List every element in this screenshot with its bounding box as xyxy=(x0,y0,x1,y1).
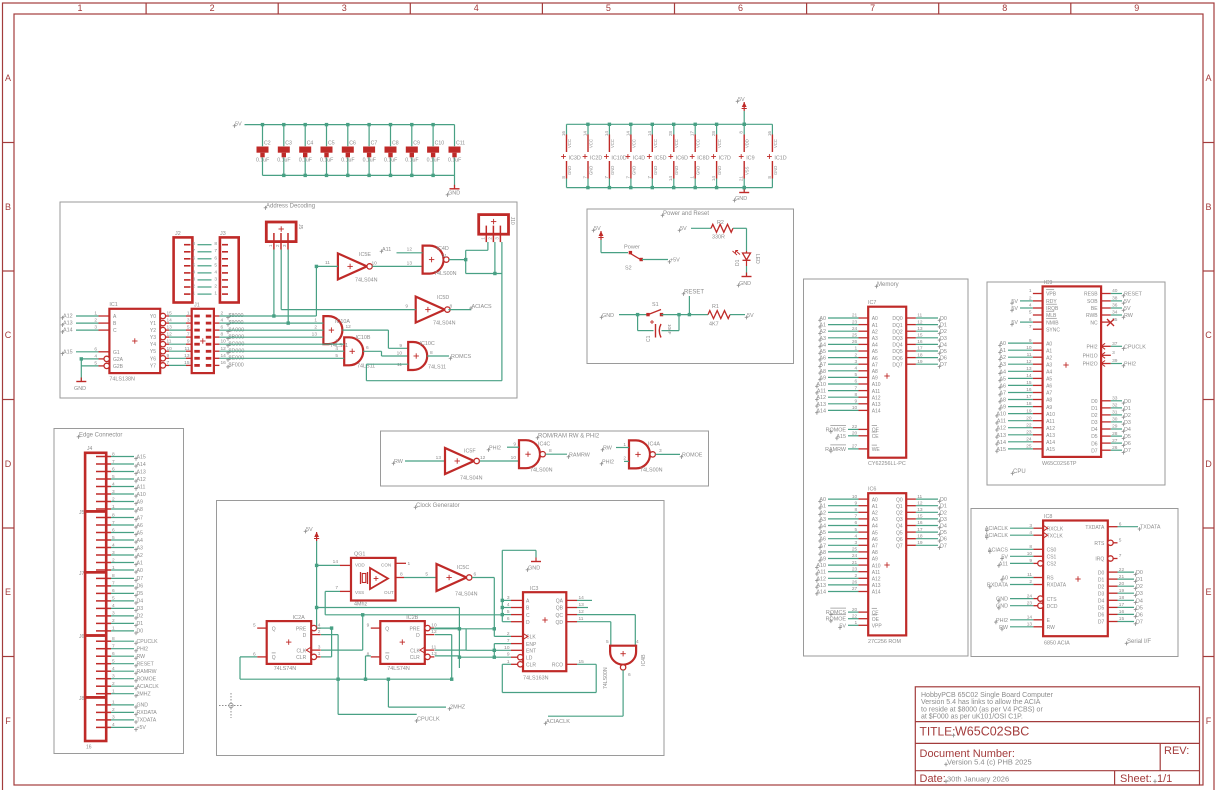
svg-text:at $F000 as per uK101/OSI C1P.: at $F000 as per uK101/OSI C1P. xyxy=(921,714,1023,721)
svg-text:VPB: VPB xyxy=(1046,292,1057,298)
svg-text:CPUCLK: CPUCLK xyxy=(417,717,440,723)
svg-text:GND: GND xyxy=(567,166,572,175)
svg-text:IC1D: IC1D xyxy=(774,156,786,162)
svg-text:0.1uF: 0.1uF xyxy=(448,158,461,164)
svg-text:ACIACLK: ACIACLK xyxy=(985,533,1008,539)
svg-text:G2A: G2A xyxy=(113,357,124,363)
svg-text:8: 8 xyxy=(214,241,217,247)
svg-text:74LS163N: 74LS163N xyxy=(523,676,549,682)
svg-text:DQ2: DQ2 xyxy=(892,329,903,335)
svg-text:1: 1 xyxy=(318,651,321,657)
svg-text:74LS04N: 74LS04N xyxy=(455,592,478,598)
svg-text:D3: D3 xyxy=(137,606,144,612)
svg-text:3: 3 xyxy=(659,448,662,454)
svg-text:A4: A4 xyxy=(1046,370,1052,376)
svg-text:IC6D: IC6D xyxy=(676,156,688,162)
svg-text:6: 6 xyxy=(366,345,369,351)
svg-text:7: 7 xyxy=(604,176,609,179)
svg-text:8: 8 xyxy=(450,304,453,310)
svg-text:12: 12 xyxy=(407,247,413,253)
svg-text:14: 14 xyxy=(668,176,673,182)
svg-text:C11: C11 xyxy=(456,141,465,147)
svg-text:A1: A1 xyxy=(1046,348,1052,354)
svg-text:A12: A12 xyxy=(816,576,826,582)
svg-text:13: 13 xyxy=(407,260,413,266)
svg-text:ACIACLK: ACIACLK xyxy=(985,526,1008,532)
svg-text:A8: A8 xyxy=(137,507,143,513)
svg-text:LED: LED xyxy=(754,254,760,264)
svg-text:5: 5 xyxy=(193,262,196,268)
svg-text:Q: Q xyxy=(385,626,389,632)
svg-text:D7: D7 xyxy=(1136,620,1143,626)
svg-text:VSS: VSS xyxy=(355,590,364,595)
svg-text:A10: A10 xyxy=(872,382,881,388)
svg-text:+5V: +5V xyxy=(137,725,147,731)
svg-text:74LS00N: 74LS00N xyxy=(530,468,553,474)
svg-text:Q: Q xyxy=(385,655,389,661)
svg-text:A0: A0 xyxy=(137,568,143,574)
svg-text:A5: A5 xyxy=(1046,377,1052,383)
svg-text:D2: D2 xyxy=(1136,584,1143,590)
svg-text:E: E xyxy=(1205,587,1211,597)
svg-text:14: 14 xyxy=(625,131,630,137)
svg-text:IC7D: IC7D xyxy=(719,156,731,162)
svg-text:8: 8 xyxy=(400,572,403,578)
svg-text:8: 8 xyxy=(193,241,196,247)
svg-text:CTS: CTS xyxy=(1047,597,1058,603)
svg-text:D6: D6 xyxy=(940,356,947,362)
svg-text:0.1uF: 0.1uF xyxy=(384,158,397,164)
svg-text:LD: LD xyxy=(526,655,533,661)
svg-text:A13: A13 xyxy=(996,433,1006,439)
svg-text:D4: D4 xyxy=(940,342,947,348)
svg-text:1: 1 xyxy=(408,561,411,567)
svg-text:IC8D: IC8D xyxy=(697,156,709,162)
svg-text:A11: A11 xyxy=(872,570,881,576)
svg-text:6: 6 xyxy=(214,255,217,261)
svg-text:A11: A11 xyxy=(137,484,146,490)
svg-text:GND: GND xyxy=(448,191,460,197)
svg-text:R1: R1 xyxy=(712,304,719,310)
svg-text:7: 7 xyxy=(625,176,630,179)
svg-text:A14: A14 xyxy=(872,409,881,415)
svg-text:CS1: CS1 xyxy=(1047,555,1057,561)
svg-text:2: 2 xyxy=(314,325,317,331)
svg-text:IC8: IC8 xyxy=(1044,514,1052,520)
svg-text:D7: D7 xyxy=(940,543,947,549)
svg-text:6: 6 xyxy=(193,255,196,261)
svg-text:14: 14 xyxy=(647,131,652,137)
svg-text:D7: D7 xyxy=(1098,620,1105,626)
svg-text:GND: GND xyxy=(996,597,1008,603)
svg-text:A3: A3 xyxy=(872,517,878,523)
svg-text:ROMOE: ROMOE xyxy=(682,453,703,459)
svg-text:RW: RW xyxy=(603,446,613,452)
svg-text:CLR: CLR xyxy=(410,655,420,661)
svg-text:14: 14 xyxy=(583,131,588,137)
svg-text:IC4D: IC4D xyxy=(437,246,449,252)
svg-text:D1: D1 xyxy=(1124,406,1131,412)
svg-text:RESET: RESET xyxy=(1124,292,1143,298)
svg-text:6: 6 xyxy=(628,672,631,678)
svg-text:2: 2 xyxy=(193,284,196,290)
svg-text:D1: D1 xyxy=(1091,406,1098,412)
svg-text:OE: OE xyxy=(872,617,880,623)
svg-text:D4: D4 xyxy=(1136,598,1143,604)
svg-text:GND: GND xyxy=(653,166,658,175)
svg-text:RESET: RESET xyxy=(137,662,155,668)
svg-text:ACIACLK: ACIACLK xyxy=(546,719,570,725)
svg-text:B: B xyxy=(1205,202,1211,212)
svg-text:A0: A0 xyxy=(872,497,878,503)
svg-text:74LS74N: 74LS74N xyxy=(387,666,410,672)
svg-text:RCO: RCO xyxy=(552,663,563,669)
svg-text:28: 28 xyxy=(668,131,673,137)
svg-text:0.1uF: 0.1uF xyxy=(427,158,440,164)
svg-text:3: 3 xyxy=(193,276,196,282)
svg-text:RW: RW xyxy=(1047,625,1056,631)
svg-text:5: 5 xyxy=(1029,310,1032,316)
svg-text:5V: 5V xyxy=(235,122,242,128)
svg-text:1: 1 xyxy=(214,291,217,297)
svg-text:PHI1O: PHI1O xyxy=(1083,354,1098,360)
svg-text:VCC: VCC xyxy=(717,139,722,148)
svg-text:27C256 ROM: 27C256 ROM xyxy=(868,639,901,645)
svg-text:ENP: ENP xyxy=(526,642,537,648)
svg-text:0.1uF: 0.1uF xyxy=(256,158,269,164)
svg-text:A15: A15 xyxy=(996,447,1006,453)
svg-text:IC10D: IC10D xyxy=(611,156,626,162)
svg-text:2: 2 xyxy=(318,629,321,635)
svg-text:IC5D: IC5D xyxy=(654,156,666,162)
svg-text:Y1: Y1 xyxy=(150,321,156,327)
svg-text:VCC: VCC xyxy=(653,139,658,148)
svg-text:IC9: IC9 xyxy=(1044,280,1052,286)
svg-text:J4: J4 xyxy=(87,446,93,452)
svg-text:11: 11 xyxy=(397,362,402,368)
svg-text:13: 13 xyxy=(436,455,442,461)
svg-text:WE: WE xyxy=(872,447,881,453)
svg-text:IC10B: IC10B xyxy=(356,335,371,341)
svg-text:D5: D5 xyxy=(1124,434,1131,440)
svg-text:GND: GND xyxy=(137,703,149,709)
svg-text:J5: J5 xyxy=(297,224,303,230)
svg-text:A12: A12 xyxy=(996,426,1006,432)
svg-text:GND: GND xyxy=(528,566,540,572)
svg-text:TXDATA: TXDATA xyxy=(137,718,157,724)
svg-text:D7: D7 xyxy=(940,362,947,368)
svg-text:C5: C5 xyxy=(328,141,335,147)
svg-text:CE: CE xyxy=(872,434,880,440)
svg-text:G1: G1 xyxy=(113,350,120,356)
svg-text:ACIACS: ACIACS xyxy=(988,547,1008,553)
svg-text:J6: J6 xyxy=(79,634,85,640)
svg-text:D1: D1 xyxy=(1098,577,1105,583)
svg-text:W65C02SBC: W65C02SBC xyxy=(955,725,1029,739)
svg-text:74LS11: 74LS11 xyxy=(428,365,446,371)
svg-text:A: A xyxy=(1205,73,1211,83)
svg-text:GND: GND xyxy=(74,386,86,392)
svg-text:IC5E: IC5E xyxy=(359,252,371,258)
svg-text:VCC: VCC xyxy=(773,139,778,148)
svg-text:DQ1: DQ1 xyxy=(892,323,903,329)
svg-text:D2: D2 xyxy=(940,329,947,335)
svg-text:A6: A6 xyxy=(872,356,878,362)
svg-text:16: 16 xyxy=(221,360,227,366)
svg-text:Memory: Memory xyxy=(877,282,899,288)
svg-text:to reside at $8000 (as per V4: to reside at $8000 (as per V4 PCBS) or xyxy=(921,706,1043,713)
svg-text:D7: D7 xyxy=(1124,448,1131,454)
svg-text:12: 12 xyxy=(480,455,486,461)
svg-text:RW: RW xyxy=(394,459,404,465)
svg-text:D5: D5 xyxy=(940,349,947,355)
svg-text:CLR: CLR xyxy=(526,663,536,669)
svg-text:A13: A13 xyxy=(872,583,881,589)
svg-text:VCC: VCC xyxy=(589,139,594,148)
svg-text:$F000: $F000 xyxy=(229,363,244,369)
svg-text:C: C xyxy=(5,330,12,340)
svg-text:D1: D1 xyxy=(940,504,947,510)
svg-text:7: 7 xyxy=(214,248,217,254)
svg-text:C4: C4 xyxy=(307,141,314,147)
svg-text:D0: D0 xyxy=(1098,570,1105,576)
svg-text:OUT: OUT xyxy=(384,590,394,595)
svg-text:3: 3 xyxy=(1112,350,1115,356)
svg-text:DQ3: DQ3 xyxy=(892,336,903,342)
svg-text:2: 2 xyxy=(210,3,215,13)
svg-text:NMIB: NMIB xyxy=(1046,320,1059,326)
svg-text:REV:: REV: xyxy=(1164,745,1189,757)
svg-text:C8: C8 xyxy=(392,141,399,147)
svg-text:A11: A11 xyxy=(382,247,391,253)
svg-text:A11: A11 xyxy=(817,570,826,576)
svg-text:GND: GND xyxy=(735,196,747,202)
svg-text:TITLE:: TITLE: xyxy=(920,725,956,739)
svg-text:74LS04N: 74LS04N xyxy=(460,476,483,482)
svg-text:GND: GND xyxy=(631,166,636,175)
svg-text:14: 14 xyxy=(604,131,609,137)
svg-text:E: E xyxy=(5,587,11,597)
svg-text:GND: GND xyxy=(674,166,679,175)
svg-text:VCC: VCC xyxy=(567,139,572,148)
svg-text:CLK: CLK xyxy=(296,648,306,654)
svg-text:Serial I/F: Serial I/F xyxy=(1127,639,1151,645)
svg-text:IC2A: IC2A xyxy=(293,615,305,621)
svg-text:4: 4 xyxy=(636,639,639,645)
svg-text:A14: A14 xyxy=(872,590,881,596)
svg-text:8: 8 xyxy=(549,448,552,454)
svg-text:J5: J5 xyxy=(79,510,85,516)
svg-text:330R: 330R xyxy=(712,235,725,241)
svg-text:8: 8 xyxy=(1002,3,1007,13)
svg-text:0.1uF: 0.1uF xyxy=(341,158,354,164)
svg-text:C: C xyxy=(526,613,530,619)
svg-text:Q4: Q4 xyxy=(896,524,903,530)
svg-text:A13: A13 xyxy=(816,583,826,589)
svg-text:D2: D2 xyxy=(1091,413,1098,419)
svg-text:Y6: Y6 xyxy=(150,356,156,362)
svg-text:6: 6 xyxy=(738,3,743,13)
svg-text:A11: A11 xyxy=(999,561,1008,567)
svg-text:16: 16 xyxy=(86,745,92,751)
svg-text:11: 11 xyxy=(325,260,330,266)
svg-text:3: 3 xyxy=(214,276,217,282)
svg-text:1/1: 1/1 xyxy=(1157,773,1172,785)
svg-text:74LS74N: 74LS74N xyxy=(274,666,297,672)
svg-text:A14: A14 xyxy=(137,462,146,468)
svg-text:A15: A15 xyxy=(1046,447,1055,453)
svg-text:TXCLK: TXCLK xyxy=(1047,533,1064,539)
svg-text:C: C xyxy=(1205,330,1212,340)
svg-text:A12: A12 xyxy=(63,314,73,320)
svg-text:D5: D5 xyxy=(1098,606,1105,612)
svg-text:2MHZ: 2MHZ xyxy=(137,692,151,698)
svg-text:RS: RS xyxy=(1047,576,1055,582)
svg-text:RW: RW xyxy=(137,654,146,660)
svg-text:DQ0: DQ0 xyxy=(892,316,903,322)
svg-text:A13: A13 xyxy=(816,402,826,408)
svg-text:D7: D7 xyxy=(137,576,144,582)
svg-text:5V: 5V xyxy=(680,226,687,232)
svg-text:ENT: ENT xyxy=(526,649,536,655)
svg-text:0.1uF: 0.1uF xyxy=(277,158,290,164)
svg-text:A13: A13 xyxy=(872,402,881,408)
svg-text:Y4: Y4 xyxy=(150,342,156,348)
svg-text:A10: A10 xyxy=(137,492,146,498)
svg-text:PRE: PRE xyxy=(296,626,307,632)
svg-text:7: 7 xyxy=(1119,553,1122,559)
svg-text:A11: A11 xyxy=(1046,419,1055,425)
svg-text:RAMRW: RAMRW xyxy=(569,453,591,459)
svg-text:D3: D3 xyxy=(940,336,947,342)
svg-text:D: D xyxy=(5,459,12,469)
svg-text:5V: 5V xyxy=(1011,306,1018,312)
svg-text:16: 16 xyxy=(767,131,772,137)
svg-text:IC4B: IC4B xyxy=(641,654,647,666)
svg-text:Q: Q xyxy=(272,655,276,661)
svg-text:VCC: VCC xyxy=(696,139,701,148)
svg-text:74LS04N: 74LS04N xyxy=(355,278,378,284)
svg-text:0.1uF: 0.1uF xyxy=(405,158,418,164)
svg-text:9: 9 xyxy=(405,304,408,310)
svg-text:5V: 5V xyxy=(594,226,601,232)
svg-text:A13: A13 xyxy=(137,469,146,475)
svg-text:IC2D: IC2D xyxy=(590,156,602,162)
svg-text:VDD: VDD xyxy=(745,139,750,148)
svg-text:D: D xyxy=(416,633,420,639)
svg-text:BE: BE xyxy=(1091,306,1098,312)
svg-text:A10: A10 xyxy=(872,563,881,569)
svg-text:D3: D3 xyxy=(1098,592,1105,598)
svg-text:A12: A12 xyxy=(872,395,881,401)
svg-text:TXDATA: TXDATA xyxy=(1085,525,1105,531)
svg-text:RXDATA: RXDATA xyxy=(1047,583,1067,589)
svg-text:9: 9 xyxy=(1134,3,1139,13)
svg-text:IC5F: IC5F xyxy=(464,449,476,455)
svg-text:A7: A7 xyxy=(1046,391,1052,397)
svg-text:A14: A14 xyxy=(996,440,1006,446)
svg-text:IC4A: IC4A xyxy=(648,442,660,448)
svg-text:RAMRW: RAMRW xyxy=(137,669,157,675)
svg-text:D1: D1 xyxy=(1136,577,1143,583)
svg-text:RTS: RTS xyxy=(1094,541,1105,547)
svg-text:A11: A11 xyxy=(997,419,1006,425)
svg-text:A10: A10 xyxy=(816,563,826,569)
svg-text:D4: D4 xyxy=(137,599,144,605)
svg-text:5: 5 xyxy=(335,353,338,359)
svg-text:D4: D4 xyxy=(1091,427,1098,433)
svg-text:VSS: VSS xyxy=(745,166,750,175)
svg-text:CON: CON xyxy=(381,563,391,568)
svg-text:D0: D0 xyxy=(1124,399,1131,405)
svg-text:A12: A12 xyxy=(1046,426,1055,432)
svg-text:HobbyPCB 65C02 Single Board Co: HobbyPCB 65C02 Single Board Computer xyxy=(921,692,1054,699)
svg-text:NC: NC xyxy=(1090,320,1098,326)
svg-text:RAMRW: RAMRW xyxy=(825,447,847,453)
svg-text:A3: A3 xyxy=(872,336,878,342)
svg-text:DQ6: DQ6 xyxy=(892,356,903,362)
svg-text:D6: D6 xyxy=(137,584,144,590)
svg-text:A12: A12 xyxy=(816,395,826,401)
svg-text:D4: D4 xyxy=(1124,427,1131,433)
svg-text:D3: D3 xyxy=(940,517,947,523)
svg-text:16: 16 xyxy=(561,131,566,137)
svg-text:A8: A8 xyxy=(1046,398,1052,404)
svg-text:A6: A6 xyxy=(872,537,878,543)
svg-text:GND: GND xyxy=(996,604,1008,610)
svg-text:DQ5: DQ5 xyxy=(892,349,903,355)
svg-text:D6: D6 xyxy=(940,537,947,543)
svg-text:CLK: CLK xyxy=(526,635,536,641)
svg-text:A3: A3 xyxy=(137,545,143,551)
svg-text:11: 11 xyxy=(442,253,447,259)
svg-text:D1: D1 xyxy=(137,621,144,627)
svg-text:A4: A4 xyxy=(872,524,878,530)
svg-text:GND: GND xyxy=(602,313,614,319)
svg-text:Address Decoding: Address Decoding xyxy=(266,204,315,210)
svg-text:9: 9 xyxy=(367,623,370,629)
svg-text:C1: C1 xyxy=(646,335,652,342)
svg-text:Power: Power xyxy=(624,245,640,251)
svg-text:D1: D1 xyxy=(735,259,741,266)
svg-text:D2: D2 xyxy=(1124,413,1131,419)
svg-text:28: 28 xyxy=(711,131,716,137)
svg-text:A5: A5 xyxy=(137,530,143,536)
svg-text:D5: D5 xyxy=(137,591,144,597)
svg-text:74LS00N: 74LS00N xyxy=(640,468,663,474)
svg-text:D2: D2 xyxy=(940,510,947,516)
svg-text:1: 1 xyxy=(623,442,626,448)
svg-text:7: 7 xyxy=(870,3,875,13)
svg-text:A15: A15 xyxy=(137,454,146,460)
svg-text:DQ4: DQ4 xyxy=(892,343,903,349)
svg-text:1: 1 xyxy=(314,318,317,324)
svg-text:A13: A13 xyxy=(1046,433,1055,439)
svg-text:D1: D1 xyxy=(940,323,947,329)
svg-text:Y0: Y0 xyxy=(150,314,156,320)
svg-text:5V: 5V xyxy=(747,313,754,319)
svg-text:A2: A2 xyxy=(137,553,143,559)
svg-text:A15: A15 xyxy=(836,434,846,440)
svg-text:Sheet:: Sheet: xyxy=(1120,773,1152,785)
svg-text:4Mhz: 4Mhz xyxy=(354,601,367,607)
svg-text:R2: R2 xyxy=(717,220,724,226)
svg-text:A14: A14 xyxy=(63,328,73,334)
svg-text:8: 8 xyxy=(739,131,744,134)
svg-text:5: 5 xyxy=(253,623,256,629)
svg-text:A14: A14 xyxy=(816,590,826,596)
svg-text:J1: J1 xyxy=(194,303,200,309)
